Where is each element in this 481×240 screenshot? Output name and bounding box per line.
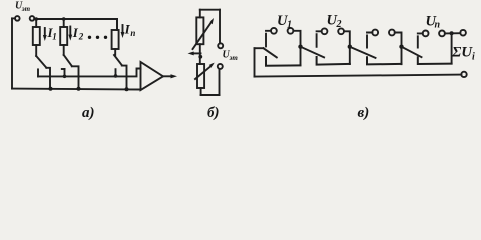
node tap junction bbox=[198, 55, 202, 59]
wire top of divider bbox=[200, 9, 220, 11]
cell 2 terminal circle A bbox=[322, 28, 328, 34]
node at R2 top bbox=[62, 17, 66, 21]
wire from node down to box Un bbox=[451, 33, 453, 63]
label I1 bbox=[47, 25, 57, 42]
cell 1 terminal circle A bbox=[271, 28, 277, 34]
output terminal circle top right bbox=[460, 30, 466, 36]
terminal circle upper bbox=[218, 43, 223, 48]
svg-text:i: i bbox=[472, 52, 475, 63]
cell 3: contact lead left bbox=[367, 33, 372, 48]
switch S1 arm bbox=[36, 56, 46, 68]
switch SV1 arm bbox=[264, 48, 277, 57]
svg-text:n: n bbox=[130, 28, 135, 38]
cell 1: contact lead left bbox=[266, 31, 271, 47]
svg-text:ΣU: ΣU bbox=[451, 45, 473, 61]
svg-text:эт: эт bbox=[21, 5, 31, 13]
rheostat R3 body bbox=[196, 17, 203, 44]
svg-text:2: 2 bbox=[336, 19, 342, 30]
node pivot SV4 bbox=[399, 45, 403, 49]
cell 4: lead from B to output bbox=[445, 32, 460, 34]
wire rheostat R4 bottom stub bbox=[200, 88, 202, 95]
cell 4 terminal circle B bbox=[439, 31, 445, 37]
switch SV3 arm bbox=[350, 47, 376, 58]
wire: bend down to Rn bbox=[116, 19, 118, 30]
node Sn post on summing rail bbox=[114, 74, 118, 78]
label Un bbox=[426, 14, 441, 31]
wire bottom of divider bbox=[201, 94, 220, 96]
svg-text:эт: эт bbox=[229, 54, 239, 62]
source Un box bbox=[418, 57, 452, 64]
wire Rn bottom stub bbox=[114, 49, 116, 55]
wire: left rail stub to terminal bbox=[12, 17, 15, 19]
switch S1 left contact post bbox=[37, 69, 39, 76]
rheostat R3 adjust arrow bbox=[193, 22, 212, 50]
node pivot SV2 bbox=[298, 45, 302, 49]
cell 4 terminal circle A bbox=[423, 31, 429, 37]
terminal circle lower bbox=[218, 64, 223, 69]
label v) bbox=[358, 105, 370, 121]
svg-text:а): а) bbox=[82, 105, 95, 121]
switch Sn elbow wire bbox=[122, 66, 127, 90]
node S2 on ground rail bbox=[77, 87, 81, 91]
op-amp output wire bbox=[163, 75, 172, 77]
current arrow In bbox=[122, 25, 124, 34]
ground return rail bbox=[255, 75, 462, 77]
switch SV4 arm bbox=[402, 47, 422, 57]
rheostat R4 adjust arrow bbox=[195, 65, 212, 79]
op-amp U1 triangle bbox=[141, 62, 164, 90]
summing rail to op-amp bbox=[38, 69, 141, 77]
wire R2 bottom stub bbox=[63, 45, 65, 55]
ellipsis dots between R2 and Rn bbox=[88, 36, 107, 39]
label U_et (reference voltage) bbox=[15, 1, 31, 13]
switch S1 elbow wire bbox=[46, 68, 50, 89]
node S1 on ground rail bbox=[49, 87, 53, 91]
label U1 bbox=[277, 13, 292, 30]
cell 2 terminal circle B bbox=[338, 28, 344, 34]
entry wire bbox=[255, 47, 264, 49]
rheostat R4 body bbox=[197, 64, 204, 88]
svg-text:2: 2 bbox=[78, 32, 84, 42]
cell 2: lead from B down bbox=[344, 31, 350, 64]
source U3 box bbox=[367, 57, 402, 64]
source U1 box bbox=[266, 57, 301, 66]
svg-text:в): в) bbox=[358, 105, 370, 121]
wire right riser upper bbox=[219, 10, 221, 44]
wire between rheostats bbox=[199, 44, 201, 64]
svg-text:I: I bbox=[72, 25, 79, 40]
current arrow I1 bbox=[44, 28, 46, 37]
node at R1 top bbox=[34, 17, 38, 21]
wire Rn top stub bbox=[116, 19, 118, 30]
cell 4: contact lead left bbox=[418, 33, 423, 47]
tap arrowhead bbox=[188, 52, 194, 56]
label In bbox=[124, 22, 136, 38]
wire R1 top stub bbox=[35, 19, 37, 27]
current arrow I2 bbox=[69, 27, 71, 37]
svg-text:1: 1 bbox=[287, 19, 292, 30]
terminal circle left of U_et bbox=[15, 16, 20, 21]
label U2 bbox=[327, 13, 342, 30]
terminal circle right of U_et bbox=[30, 16, 35, 21]
label Sum Ui bbox=[451, 45, 475, 63]
wire right riser lower bbox=[219, 69, 221, 95]
svg-text:n: n bbox=[435, 20, 441, 31]
resistor R2 bbox=[60, 27, 67, 45]
node output junction bbox=[450, 31, 454, 35]
wire R1 bottom stub bbox=[35, 45, 37, 56]
cell 2: contact lead left bbox=[317, 31, 322, 47]
wire: top bus from terminal to bend bbox=[34, 18, 117, 20]
switch Sn left contact post bbox=[115, 69, 117, 76]
left loop wire down bbox=[254, 48, 256, 76]
source U2 box bbox=[317, 57, 350, 65]
label U_et output bbox=[223, 50, 239, 63]
svg-text:1: 1 bbox=[52, 32, 57, 42]
switch SV2 arm bbox=[301, 47, 325, 58]
tap arrow wire bbox=[192, 52, 201, 54]
cell 3: lead from B down bbox=[395, 33, 402, 65]
switch S2 arm bbox=[64, 55, 72, 66]
wire: left rail vertical bbox=[11, 18, 13, 88]
wire R2 top stub bbox=[63, 19, 65, 27]
label I2 bbox=[72, 25, 84, 41]
label b) bbox=[207, 105, 219, 121]
node Sn on ground rail bbox=[125, 87, 129, 91]
ground rail bottom bbox=[12, 88, 141, 91]
svg-text:б): б) bbox=[207, 105, 219, 121]
output terminal circle bottom right bbox=[461, 72, 466, 77]
cell 1: lead from B down bbox=[293, 31, 300, 65]
label a) bbox=[82, 105, 95, 121]
cell 1 terminal circle B bbox=[288, 28, 294, 34]
node pivot SV3 bbox=[348, 45, 352, 49]
switch S2 elbow wire bbox=[72, 66, 79, 89]
switch S2 left contact post bbox=[64, 69, 66, 76]
cell 3 terminal circle A bbox=[372, 30, 378, 36]
resistor R1 bbox=[33, 27, 40, 45]
node S2 post on summing rail bbox=[63, 75, 67, 79]
switch Sn arm bbox=[114, 55, 122, 65]
resistor Rn bbox=[112, 30, 119, 49]
op-amp output arrowhead bbox=[171, 74, 178, 78]
wire rheostat R3 top stub bbox=[199, 10, 201, 18]
cell 3 terminal circle B bbox=[389, 30, 395, 36]
